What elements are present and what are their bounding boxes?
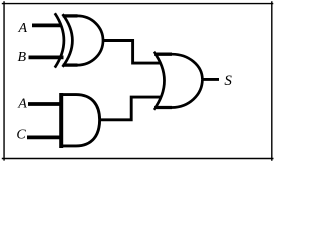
svg-text:A: A [17,97,27,112]
svg-text:C: C [16,128,26,143]
svg-text:S: S [224,73,232,89]
svg-text:B: B [18,50,27,65]
svg-text:A: A [18,21,28,36]
